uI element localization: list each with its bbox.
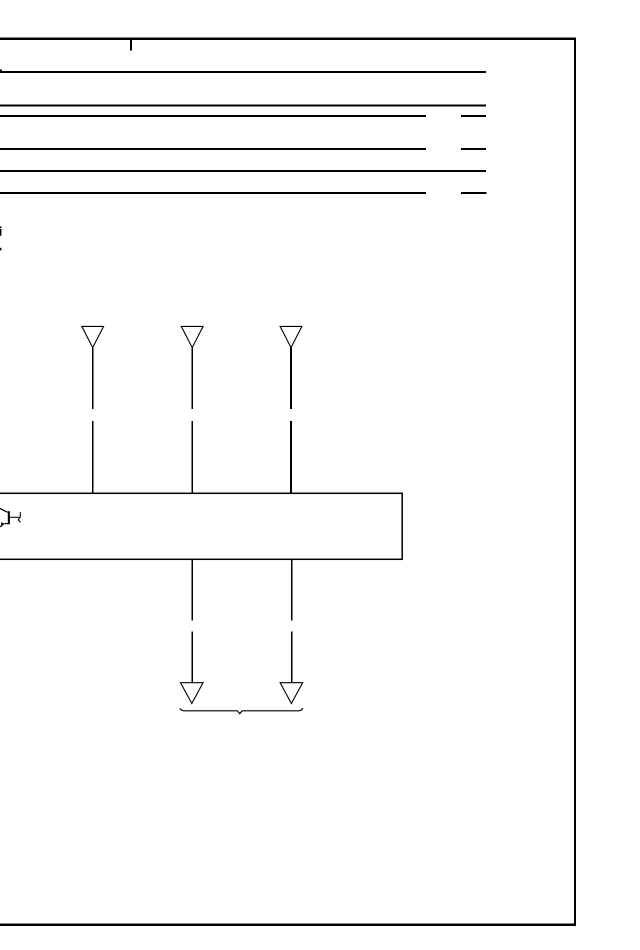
- bus line 4: [0, 148, 426, 150]
- sheet border top: [0, 38, 576, 40]
- bus line 6 dash: [461, 192, 486, 194]
- sheet border right: [574, 38, 576, 926]
- bus line 3: [0, 115, 426, 117]
- clipped text fragment i: [0, 226, 1, 228]
- arrow B2 triangle: [280, 683, 303, 704]
- transistor Q1 squiggle: [18, 518, 20, 523]
- arrow B1 triangle: [181, 683, 204, 704]
- bus line 2: [0, 104, 486, 106]
- block U1 rectangle: [0, 493, 402, 559]
- transistor Q1 emitter wire: [0, 525, 2, 527]
- transistor Q1 emitter arrow: [1, 522, 5, 526]
- bus line 1 left jog: [0, 69, 2, 71]
- under-brace: [180, 708, 303, 714]
- transistor Q1 base lead: [10, 516, 20, 518]
- wire A3 upper: [290, 348, 292, 409]
- off-page arrow A3 triangle: [280, 326, 302, 347]
- off-page arrow A1 triangle: [82, 326, 104, 347]
- bus line 5: [0, 170, 486, 172]
- bus line 4 dash: [461, 148, 486, 150]
- transistor Q1 collector lead: [0, 509, 8, 513]
- wire B1 lower: [191, 631, 193, 682]
- clipped text fragment dot: [0, 248, 1, 251]
- wire A1 upper: [92, 348, 94, 409]
- wire A2 lower: [191, 421, 193, 494]
- transistor Q1 base bar: [8, 511, 10, 524]
- transistor Q1 emitter lead: [5, 523, 10, 525]
- transistor Q1 right pin: [19, 512, 21, 517]
- bus line 3 dash: [461, 115, 486, 117]
- wire B2 lower: [291, 631, 293, 682]
- bus line 1: [0, 71, 486, 73]
- bus line 6: [0, 192, 426, 194]
- sheet border bottom: [0, 923, 576, 925]
- wire B1 upper: [191, 559, 193, 620]
- wire A1 lower: [92, 421, 94, 494]
- wire B2 upper: [291, 559, 293, 620]
- wire A2 upper: [191, 348, 193, 409]
- off-page arrow A2 triangle: [181, 326, 203, 347]
- tick on top border: [130, 40, 132, 51]
- wire A3 lower: [290, 421, 292, 494]
